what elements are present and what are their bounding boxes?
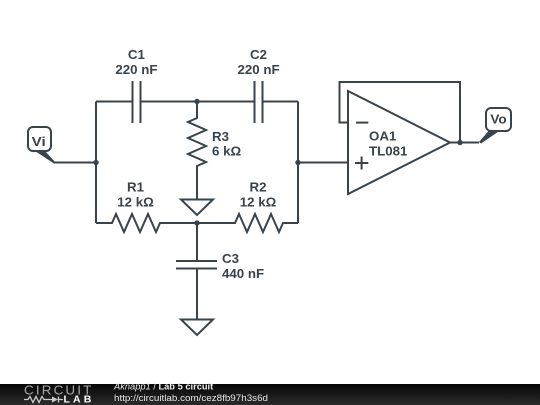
- svg-text:C3: C3: [222, 251, 239, 266]
- svg-text:LAB: LAB: [64, 395, 95, 405]
- svg-text:220 nF: 220 nF: [237, 62, 279, 77]
- svg-text:R2: R2: [250, 180, 267, 195]
- svg-text:http://circuitlab.com/cez8fb97: http://circuitlab.com/cez8fb97h3s6d: [114, 393, 268, 404]
- svg-text:OA1: OA1: [369, 129, 397, 144]
- svg-text:12 kΩ: 12 kΩ: [240, 194, 277, 209]
- svg-text:C2: C2: [250, 47, 267, 62]
- svg-text:R3: R3: [212, 129, 229, 144]
- svg-text:Aknapp1 / Lab 5 circuit: Aknapp1 / Lab 5 circuit: [113, 381, 213, 391]
- svg-text:C1: C1: [128, 47, 146, 62]
- svg-text:12 kΩ: 12 kΩ: [117, 194, 154, 209]
- svg-text:Vi: Vi: [32, 134, 46, 149]
- svg-text:440 nF: 440 nF: [222, 266, 264, 281]
- svg-text:TL081: TL081: [369, 143, 408, 158]
- svg-text:Vo: Vo: [490, 112, 506, 127]
- svg-text:6 kΩ: 6 kΩ: [212, 144, 241, 159]
- svg-text:R1: R1: [127, 180, 145, 195]
- svg-text:220 nF: 220 nF: [115, 62, 157, 77]
